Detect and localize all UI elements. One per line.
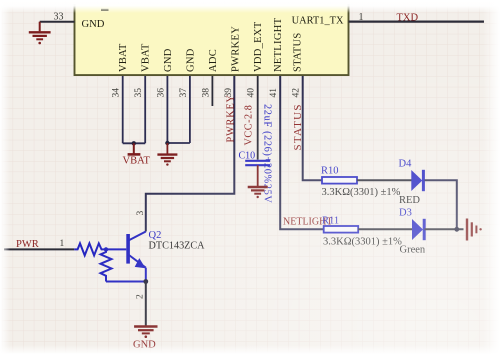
base bar	[126, 234, 130, 264]
resistor bottom wire to emitter	[106, 281, 146, 283]
junction VBAT	[132, 141, 136, 145]
wire VBAT join	[123, 142, 146, 144]
ground (right, sideways)	[467, 219, 482, 241]
ground (pin33)	[29, 22, 51, 45]
pin stub 36	[166, 76, 168, 143]
pin stub 40 to C10	[257, 76, 259, 160]
pin 33 wire	[40, 21, 75, 23]
base series resistor zigzag	[74, 243, 126, 255]
wire R10 to D4	[357, 179, 412, 181]
collector diagonal	[129, 232, 146, 241]
junction base	[104, 247, 108, 251]
pin stub 35	[144, 76, 146, 143]
wire GND join	[167, 142, 190, 144]
pin 42 wire STATUS	[303, 76, 322, 180]
junction right bus	[454, 227, 459, 232]
junction GND	[165, 141, 169, 145]
IC U (module) body	[75, 4, 349, 75]
emitter arrow	[135, 258, 146, 268]
junction emitter	[143, 279, 148, 284]
wire R11 to D3	[358, 228, 412, 230]
pin stub 38 (ADC, open)	[211, 76, 213, 106]
pin stub 34	[122, 76, 124, 143]
power port VBAT	[133, 143, 135, 154]
wire D4 to right bus	[425, 180, 457, 229]
capacitor C10	[245, 161, 270, 165]
pin stub 37	[189, 76, 191, 143]
wire emitter to ground	[145, 282, 147, 326]
wire TXD (pin 1)	[349, 21, 485, 23]
IC top text remnant	[101, 9, 109, 11]
pin 41 wire NETLIGHT	[280, 76, 324, 229]
transistor Q2 DTC143ZCA	[74, 232, 146, 282]
wire D3 to junction and ground	[425, 228, 464, 230]
emitter diagonal	[129, 255, 146, 268]
emitter vertical	[145, 268, 147, 282]
pin 39 wire PWRKEY down and left to Q2 collector	[146, 76, 235, 232]
ground (pins 36/37)	[157, 143, 177, 166]
wire PWR	[4, 248, 74, 250]
ground (Q2 emitter)	[134, 327, 157, 339]
ground (C10)	[248, 187, 268, 198]
base-emitter resistor zigzag (vertical)	[101, 249, 112, 281]
wire C10 to ground	[257, 165, 259, 186]
